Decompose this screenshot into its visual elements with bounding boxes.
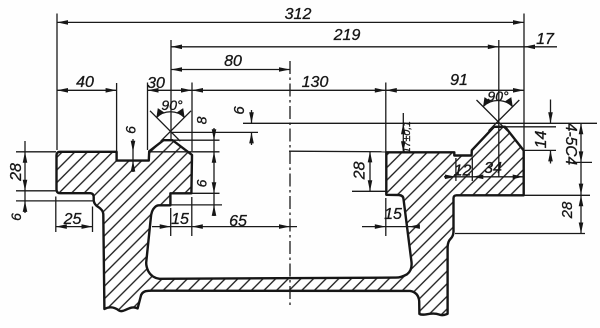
svg-text:40: 40 xyxy=(76,74,94,91)
extension 28R bottom xyxy=(455,233,585,235)
svg-text:6: 6 xyxy=(194,179,210,187)
90 deg arc arrows left xyxy=(156,108,164,118)
extension line right flange left corner up xyxy=(385,83,387,152)
17±0,1 arrows xyxy=(401,123,406,134)
arrowheads xyxy=(23,20,584,233)
svg-text:15: 15 xyxy=(171,211,189,228)
svg-text:12: 12 xyxy=(454,163,472,180)
dimension texts xyxy=(8,6,579,230)
34 right arrow xyxy=(513,175,524,180)
extension line left apex xyxy=(170,40,172,140)
hatching xyxy=(57,127,524,315)
65 right arrow xyxy=(279,224,290,229)
dimension 17±0,1 vertical xyxy=(402,113,404,152)
extension right apex level (long) xyxy=(243,122,597,124)
dimension 40 line xyxy=(57,89,117,91)
extension line 30 left xyxy=(147,83,149,151)
dimension 30/130/91 chain line xyxy=(148,89,525,91)
extension 15L verticals xyxy=(170,208,172,236)
90 degree arc right xyxy=(483,100,513,106)
svg-text:34: 34 xyxy=(484,160,502,177)
extension left apex level xyxy=(171,131,258,133)
4-5C4 arrows xyxy=(579,123,584,134)
extension 12/34 verticals xyxy=(455,158,457,181)
svg-text:17: 17 xyxy=(536,31,555,48)
svg-text:130: 130 xyxy=(302,74,329,91)
dimension 25 line xyxy=(56,226,93,228)
312 arrows xyxy=(57,20,68,25)
extension 28/6 left horizontals xyxy=(16,151,56,153)
svg-text:14: 14 xyxy=(533,131,550,149)
28 left arrows xyxy=(23,152,28,163)
extension line right edge (312/17) xyxy=(523,14,525,150)
extension 15R verticals xyxy=(385,198,387,236)
svg-text:28: 28 xyxy=(559,201,576,219)
extension line right apex / rib centre xyxy=(498,40,500,177)
extension 8-dim xyxy=(173,139,220,141)
28R arrows xyxy=(579,184,584,195)
15R arrows (outside) xyxy=(375,224,386,229)
90 degree construction X right xyxy=(477,100,520,131)
dimension 219/17 line xyxy=(171,46,557,48)
dimension 28 right-flange vertical xyxy=(369,151,371,191)
extension 14-dim xyxy=(505,126,556,128)
dimension 15L/65 line xyxy=(152,226,297,228)
svg-text:28: 28 xyxy=(352,162,369,181)
90 degree construction X left xyxy=(150,111,191,141)
80 arrows xyxy=(171,67,182,72)
svg-text:17±0,1: 17±0,1 xyxy=(401,121,413,153)
center line (axis, dash-dot) xyxy=(289,61,291,306)
extension stub right flange 28 bottom xyxy=(352,190,386,192)
svg-text:15: 15 xyxy=(384,206,402,223)
25 arrows xyxy=(56,224,67,229)
way-level extension line from centre to right flange corner xyxy=(289,150,386,153)
svg-text:312: 312 xyxy=(285,6,312,23)
svg-text:30: 30 xyxy=(147,75,165,92)
28 right-flange arrows xyxy=(368,151,373,162)
30 arrows xyxy=(148,88,159,93)
130 arrows xyxy=(192,88,203,93)
svg-text:219: 219 xyxy=(333,27,361,44)
91 arrows xyxy=(386,88,397,93)
17 arrow xyxy=(524,45,535,50)
12 arrows xyxy=(445,175,456,180)
dimension 8/6 vertical right of rib xyxy=(213,128,215,216)
dimension 15R line xyxy=(362,226,416,228)
svg-text:91: 91 xyxy=(450,72,468,89)
15L arrows (outside) xyxy=(160,224,171,229)
svg-text:6: 6 xyxy=(123,126,139,134)
6 left bottom arrow xyxy=(23,201,28,212)
svg-text:90°: 90° xyxy=(161,97,183,113)
dimension 28/6 left vertical xyxy=(24,141,26,213)
svg-text:80: 80 xyxy=(224,53,242,70)
6 apex arrows xyxy=(249,112,254,123)
extension right flange bottom xyxy=(524,194,590,196)
dimension 14 vertical xyxy=(550,100,552,124)
svg-text:25: 25 xyxy=(63,211,82,228)
svg-text:65: 65 xyxy=(229,213,247,230)
14 arrows xyxy=(548,112,553,123)
extension line left edge (312) xyxy=(56,14,58,151)
90 deg arc arrows right xyxy=(483,97,491,107)
svg-text:4-5С4: 4-5С4 xyxy=(562,123,579,166)
extension line notch left edge xyxy=(116,83,118,151)
40 arrows xyxy=(57,88,68,93)
6 notch arrows xyxy=(131,141,136,152)
svg-text:90°: 90° xyxy=(487,88,509,104)
svg-text:6: 6 xyxy=(231,106,248,115)
dimension 12/34 line xyxy=(444,176,524,178)
dimension 312 line xyxy=(57,21,524,23)
90 degree arc left xyxy=(156,112,184,118)
svg-text:8: 8 xyxy=(194,116,210,124)
8 arrows xyxy=(212,129,217,140)
219 arrows xyxy=(171,45,182,50)
extension line rib right edge up xyxy=(191,83,193,152)
svg-text:28: 28 xyxy=(8,163,25,182)
extension 6-dim right of rib xyxy=(192,192,220,194)
dimension 6 notch vertical xyxy=(132,139,134,172)
dimension 6 apex-difference vertical xyxy=(251,110,253,123)
6 right arrows xyxy=(212,182,217,193)
dimension 80 line xyxy=(171,69,290,71)
extension 4-5C4 bottom tick xyxy=(573,161,592,163)
svg-text:6: 6 xyxy=(8,213,24,221)
dimension 4-5C4 / 28R vertical xyxy=(580,123,582,233)
extension 25 dim verticals xyxy=(55,197,57,233)
